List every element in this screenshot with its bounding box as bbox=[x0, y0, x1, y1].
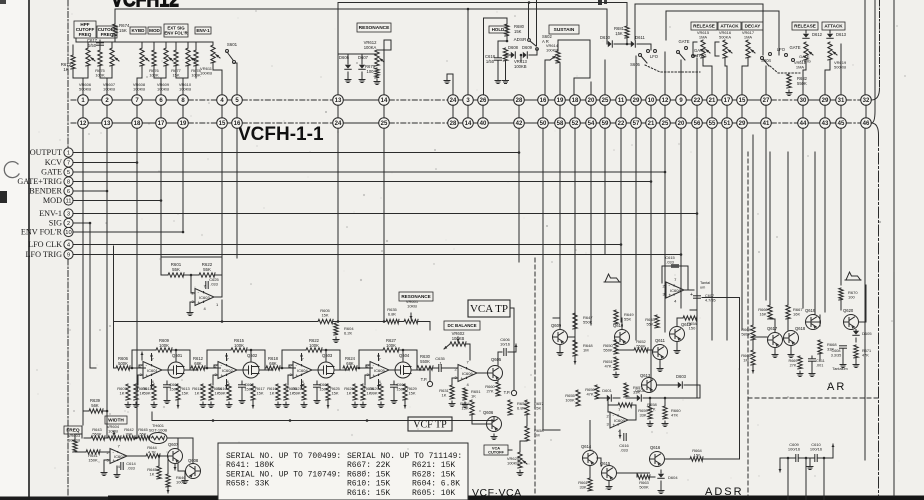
resistor R680 15K bbox=[505, 24, 509, 36]
wire KCV net bbox=[73, 162, 137, 164]
svg-text:ENV-1: ENV-1 bbox=[196, 28, 210, 33]
ground IC607 bbox=[101, 470, 107, 476]
svg-text:DECAY: DECAY bbox=[745, 24, 761, 29]
capacitor C610 100/16 bbox=[815, 455, 817, 462]
bus row2 node 58 bbox=[555, 118, 566, 129]
ground C618 pair bbox=[495, 78, 501, 84]
diode D608 bbox=[505, 54, 511, 56]
svg-text:Q605: Q605 bbox=[491, 357, 502, 362]
resistor R645b 1K bbox=[157, 466, 161, 479]
ground R679 bbox=[374, 79, 380, 85]
op-amp IC608 adsr bbox=[663, 277, 685, 303]
resistor R656 6.8K bbox=[508, 400, 512, 415]
wire bus column x=742 bbox=[741, 128, 743, 330]
svg-text:R610: 15K: R610: 15K bbox=[347, 480, 390, 489]
ground Q608 emitter bbox=[182, 478, 188, 484]
svg-text:S605: S605 bbox=[630, 62, 640, 67]
svg-text:11: 11 bbox=[618, 98, 625, 104]
svg-text:SERIAL NO. UP TO 710749:: SERIAL NO. UP TO 710749: bbox=[226, 470, 341, 479]
op-amp IC607 freq bbox=[107, 444, 128, 469]
transistor Q616 bbox=[650, 452, 665, 467]
box ENV-1 bbox=[195, 27, 211, 34]
svg-text:25: 25 bbox=[662, 121, 669, 127]
svg-text:R606500K: R606500K bbox=[118, 356, 129, 366]
resistor R609 stage 1 feedback bbox=[131, 350, 133, 368]
resistor R645 55K bbox=[138, 436, 150, 440]
op-amp IC609 bbox=[607, 407, 629, 433]
bus row2 node 50 bbox=[538, 118, 549, 129]
svg-text:D610: D610 bbox=[600, 35, 611, 40]
svg-text:D606: D606 bbox=[339, 55, 350, 60]
svg-text:24: 24 bbox=[450, 98, 457, 104]
wire bus column x=161 bbox=[160, 128, 162, 275]
svg-text:VR620100KB: VR620100KB bbox=[507, 456, 520, 466]
svg-text:MOD: MOD bbox=[43, 196, 62, 205]
svg-text:59: 59 bbox=[602, 121, 609, 127]
box KYBD bbox=[130, 27, 146, 34]
bus row1 node 19 bbox=[555, 95, 566, 106]
resistor R654 15K bbox=[470, 400, 474, 415]
wire bus column x=712 bbox=[711, 128, 713, 340]
VR606 500KB pot bbox=[86, 48, 95, 66]
svg-text:C6181/50: C6181/50 bbox=[485, 54, 496, 64]
svg-text:10: 10 bbox=[648, 98, 655, 104]
op-amp IC601 bbox=[140, 357, 163, 384]
svg-text:Q619: Q619 bbox=[805, 308, 816, 313]
svg-text:R622100K: R622100K bbox=[309, 338, 320, 348]
capacitor C601 stage 1 bbox=[166, 381, 168, 384]
resistor R670 100 bbox=[839, 288, 843, 300]
svg-text:IC606: IC606 bbox=[462, 371, 473, 376]
wire summing loop top bbox=[161, 256, 222, 258]
svg-text:VCA TP: VCA TP bbox=[470, 303, 508, 315]
resistor R646 100K bbox=[166, 474, 170, 487]
svg-text:R664580K: R664580K bbox=[741, 327, 751, 337]
pot VR612 100KA bbox=[375, 50, 384, 66]
capacitor C604 stage 4 bbox=[393, 381, 395, 384]
box ATTACK right bbox=[822, 22, 845, 30]
bus row1 node 6 bbox=[156, 95, 167, 106]
svg-text:R616: 15K: R616: 15K bbox=[347, 489, 390, 498]
svg-text:21: 21 bbox=[648, 121, 655, 127]
svg-text:57: 57 bbox=[633, 121, 640, 127]
wire SIG column bbox=[89, 223, 91, 368]
svg-text:GATE+TRIG: GATE+TRIG bbox=[17, 177, 62, 186]
svg-text:R615100K: R615100K bbox=[234, 338, 245, 348]
svg-text:12: 12 bbox=[80, 121, 87, 127]
svg-text:IC605: IC605 bbox=[374, 368, 385, 373]
svg-text:ATTACK: ATTACK bbox=[824, 24, 843, 29]
bus row2 node 22 bbox=[616, 118, 627, 129]
svg-text:15: 15 bbox=[739, 98, 746, 104]
svg-text:GATE: GATE bbox=[678, 39, 689, 44]
box VCF TP bbox=[408, 417, 452, 431]
test point VCA terminal bbox=[511, 390, 516, 395]
wire AR feed x=770 bbox=[769, 152, 771, 305]
svg-text:C60610/16: C60610/16 bbox=[500, 337, 511, 347]
svg-text:52: 52 bbox=[572, 121, 579, 127]
resistor R604 6.2K bbox=[333, 321, 386, 323]
bus row2 node 41 bbox=[761, 118, 772, 129]
resonance wires bbox=[338, 53, 377, 55]
resistor R606 stage 1 input bbox=[116, 366, 130, 370]
svg-text:D604: D604 bbox=[668, 475, 678, 480]
bus row1 node 29 bbox=[631, 95, 642, 106]
ground Q606 bbox=[491, 434, 497, 440]
transistor Q613 bbox=[642, 378, 657, 393]
resistor R625 stage 3 bbox=[326, 384, 330, 400]
bus row2 wire bbox=[71, 122, 78, 124]
bus row2 node 15 bbox=[217, 118, 228, 129]
box ATTACK left bbox=[718, 22, 741, 30]
resistor R663 500K bbox=[637, 475, 650, 479]
bus row1 node 18 bbox=[570, 95, 581, 106]
svg-text:9: 9 bbox=[67, 253, 70, 259]
transistor Q607 bbox=[168, 449, 183, 464]
svg-text:32: 32 bbox=[863, 98, 870, 104]
RAD pot wires to bus bbox=[703, 65, 712, 67]
svg-text:VR609100KB: VR609100KB bbox=[157, 82, 170, 92]
svg-text:D601: D601 bbox=[602, 388, 612, 393]
svg-text:R609100K: R609100K bbox=[159, 338, 170, 348]
box FREQ bbox=[64, 426, 82, 434]
bus row2 node 52 bbox=[570, 118, 581, 129]
resistor R653 55K bbox=[655, 315, 659, 328]
svg-text:Q611: Q611 bbox=[655, 338, 666, 343]
svg-text:29: 29 bbox=[633, 98, 640, 104]
diode D613 bbox=[829, 30, 831, 33]
resistor R651adsr 47K bbox=[614, 357, 618, 370]
svg-text:C6083.3/35: C6083.3/35 bbox=[831, 349, 842, 357]
box RESONANCE lower bbox=[399, 292, 433, 301]
svg-text:IC603: IC603 bbox=[199, 295, 210, 300]
bus row2 node 13 bbox=[102, 118, 113, 129]
svg-text:8: 8 bbox=[67, 180, 70, 186]
bus row2 node 59 bbox=[600, 118, 611, 129]
svg-text:25: 25 bbox=[602, 98, 609, 104]
svg-text:R630550K: R630550K bbox=[420, 354, 431, 364]
wire bus column x=83 bbox=[82, 128, 84, 411]
resistor R660 27K bbox=[496, 382, 500, 396]
wire bus column x=591 bbox=[590, 128, 592, 325]
svg-text:46: 46 bbox=[863, 121, 870, 127]
resistor R626 stage 4 bbox=[353, 384, 357, 400]
box SUSTAIN bbox=[549, 25, 579, 34]
wire ENV FOL'R net bbox=[73, 231, 183, 233]
svg-text:56: 56 bbox=[694, 121, 701, 127]
diode D605 bbox=[853, 331, 859, 336]
svg-text:HOLD: HOLD bbox=[492, 27, 504, 32]
bus row2 node 20 bbox=[676, 118, 687, 129]
svg-text:VR606500KB: VR606500KB bbox=[79, 82, 92, 92]
bus row1 node 25 bbox=[600, 95, 611, 106]
resistor R628 stage 4 bbox=[361, 384, 365, 400]
resistor R616 stage 2 bbox=[227, 384, 231, 400]
resistor R618 stage 3 input bbox=[266, 366, 280, 370]
wire right top verticals bbox=[864, 0, 866, 95]
svg-text:Q620: Q620 bbox=[843, 308, 854, 313]
resistor R664ar 580K bbox=[751, 325, 755, 340]
wire bus column x=543 bbox=[542, 128, 544, 322]
resistor R621 stage 3 bbox=[302, 384, 306, 400]
resistor R622 stage 3 feedback bbox=[281, 350, 283, 368]
svg-text:13: 13 bbox=[335, 98, 342, 104]
transistor Q605 bbox=[477, 372, 489, 374]
wire bus column x=825 bbox=[824, 128, 826, 312]
bus row2 node 57 bbox=[631, 118, 642, 129]
svg-text:D605: D605 bbox=[862, 331, 872, 336]
svg-text:VR612100KA: VR612100KA bbox=[364, 40, 377, 50]
VR610 100KB pot bbox=[186, 48, 195, 66]
resistor R601 55K bbox=[161, 274, 168, 276]
ground Q615 bbox=[606, 484, 612, 490]
resistor R675 100K bbox=[98, 50, 102, 66]
svg-text:22: 22 bbox=[618, 121, 625, 127]
resistor R664adsr 150 bbox=[690, 457, 703, 461]
svg-text:ENV FOL'R: ENV FOL'R bbox=[164, 31, 188, 36]
wire AR feed x=815 bbox=[814, 152, 816, 315]
bus row1 wire bbox=[71, 99, 78, 101]
bus row1 node 30 bbox=[798, 95, 809, 106]
svg-text:IC602: IC602 bbox=[222, 368, 233, 373]
diode D611 bbox=[631, 41, 636, 47]
resistor R666 16K bbox=[768, 305, 772, 319]
pot VR619 500KB bbox=[828, 42, 837, 60]
bus row1 node 12 bbox=[660, 95, 671, 106]
wire GATE net bbox=[73, 171, 665, 173]
ground R671 bbox=[853, 362, 859, 368]
box EXT SIG ENV FOL'R bbox=[164, 24, 188, 37]
svg-text:CUTOFF: CUTOFF bbox=[488, 450, 504, 455]
svg-text:13: 13 bbox=[104, 121, 111, 127]
fet Q602 bbox=[237, 369, 243, 371]
svg-text:+: + bbox=[198, 300, 201, 305]
capacitor C602 stage 2 bbox=[241, 381, 243, 384]
box MOD bbox=[148, 27, 161, 34]
op-amp IC604 bbox=[290, 357, 313, 384]
sustain section wires bbox=[558, 39, 590, 41]
bus row1 node 2 bbox=[102, 95, 113, 106]
resistor R648 1M bbox=[573, 340, 577, 356]
bus row1 node 1 bbox=[78, 95, 89, 106]
transistor Q612 bbox=[670, 327, 685, 342]
svg-text:IC604: IC604 bbox=[297, 368, 308, 373]
svg-text:BENDER: BENDER bbox=[29, 186, 62, 195]
svg-text:S604: S604 bbox=[761, 58, 771, 63]
switch S601 bbox=[227, 52, 233, 60]
bus row1 node 5 bbox=[232, 95, 243, 106]
wire bus column x=841 bbox=[840, 128, 842, 285]
svg-text:SUSTAIN: SUSTAIN bbox=[554, 27, 575, 33]
svg-text:55: 55 bbox=[709, 121, 716, 127]
bus row1 node 27 bbox=[761, 95, 772, 106]
fet Q601 bbox=[162, 369, 168, 371]
resistor R652 550K bbox=[634, 348, 648, 352]
svg-text:19: 19 bbox=[180, 121, 187, 127]
wire top rail A bbox=[338, 2, 627, 4]
switch S604 bbox=[761, 57, 764, 60]
thermistor TH601 bbox=[149, 433, 167, 444]
bus row1 node 4 bbox=[217, 95, 228, 106]
svg-text:29: 29 bbox=[822, 98, 829, 104]
wire stage bottom rail bbox=[152, 420, 494, 422]
resistor R639 56K bbox=[89, 409, 103, 413]
wire bus column x=681 bbox=[680, 128, 682, 308]
svg-text:Q607: Q607 bbox=[168, 442, 179, 447]
wire bus column x=222 bbox=[221, 128, 223, 275]
svg-text:LFO: LFO bbox=[777, 47, 786, 52]
box DC BALANCE bbox=[444, 321, 480, 330]
resistor R631 1K bbox=[450, 385, 454, 399]
svg-text:54: 54 bbox=[588, 121, 595, 127]
diode D601 bbox=[607, 395, 612, 401]
resistor R619 stage 3 bbox=[276, 384, 280, 400]
bus row1 node 17 bbox=[722, 95, 733, 106]
bus row1 node 14 bbox=[379, 95, 390, 106]
wire ENV-1 net bbox=[73, 213, 697, 215]
svg-text:IC601: IC601 bbox=[147, 368, 158, 373]
svg-text:2: 2 bbox=[67, 221, 70, 227]
svg-text:45: 45 bbox=[838, 121, 845, 127]
pot VR611 100KB bbox=[211, 45, 220, 63]
bus row1 node 26 bbox=[478, 95, 489, 106]
svg-text:41: 41 bbox=[763, 121, 770, 127]
envelope sketch ADSR bbox=[604, 274, 620, 282]
svg-text:25: 25 bbox=[381, 121, 388, 127]
svg-text:+: + bbox=[296, 373, 299, 378]
svg-text:VCFH12: VCFH12 bbox=[111, 0, 179, 12]
svg-text:WIDTH: WIDTH bbox=[108, 418, 124, 424]
ground near node 24 bbox=[444, 78, 450, 84]
bus row2 node 55 bbox=[707, 118, 718, 129]
svg-text:Q606: Q606 bbox=[483, 410, 494, 415]
svg-text:R66927K: R66927K bbox=[788, 359, 797, 367]
resistor R665 1M bbox=[751, 350, 755, 365]
svg-text:R643550K: R643550K bbox=[92, 427, 102, 437]
capacitor C608 3.3/35 bbox=[840, 346, 847, 348]
bus row2 node 14 bbox=[463, 118, 474, 129]
wire power rail caps bbox=[780, 457, 796, 459]
svg-text:D607: D607 bbox=[358, 55, 369, 60]
svg-text:31: 31 bbox=[838, 98, 845, 104]
svg-text:Q613: Q613 bbox=[640, 373, 651, 378]
resistor R614 stage 2 bbox=[209, 384, 213, 400]
left dash-dot fold line bbox=[67, 0, 69, 147]
resistor R620 stage 3 bbox=[284, 384, 288, 400]
ground caps bbox=[807, 464, 813, 470]
wire node 3 drop bbox=[467, 9, 469, 95]
wire column x=113 stage feed bbox=[113, 246, 115, 368]
diode D609 bbox=[523, 52, 528, 58]
pot VR613 100KB bbox=[503, 48, 507, 61]
svg-text:SERIAL NO. UP TO 711149:: SERIAL NO. UP TO 711149: bbox=[347, 452, 462, 461]
svg-text:RELEASE: RELEASE bbox=[693, 24, 715, 29]
bus row2 node 46 bbox=[861, 118, 872, 129]
bus row2 node 54 bbox=[586, 118, 597, 129]
svg-text:D603: D603 bbox=[676, 374, 687, 379]
svg-text:R604: 6.8K: R604: 6.8K bbox=[412, 480, 460, 489]
svg-text:Q612: Q612 bbox=[681, 322, 692, 327]
transistor Q614 bbox=[583, 451, 598, 466]
wire bus column x=575 bbox=[574, 128, 576, 348]
wire top rail B bbox=[115, 8, 607, 10]
resistor R611 stage 1 bbox=[152, 384, 156, 400]
wires release attack right bbox=[805, 60, 807, 70]
resistor R657adsr 33K bbox=[624, 383, 628, 397]
svg-text:42: 42 bbox=[516, 121, 523, 127]
wire bus column x=605 bbox=[604, 128, 606, 254]
svg-text:RESONANCE: RESONANCE bbox=[359, 25, 390, 31]
svg-text:D613: D613 bbox=[836, 32, 847, 37]
svg-text:VCF·VCA: VCF·VCA bbox=[472, 487, 522, 499]
svg-text:IC608: IC608 bbox=[670, 288, 681, 293]
wire OUTPUT net bbox=[73, 152, 519, 154]
svg-text:D602: D602 bbox=[635, 388, 645, 393]
svg-text:43: 43 bbox=[822, 121, 829, 127]
envelope sketch AR bbox=[845, 272, 861, 280]
pot VR620 100KB vca cutoff bbox=[518, 452, 527, 468]
dashed separator x=535 bbox=[534, 258, 536, 496]
box RELEASE right bbox=[792, 22, 818, 30]
wire bus column x=727 bbox=[726, 128, 728, 340]
Q607 emitter arrow bbox=[174, 464, 177, 471]
svg-text:R650550K: R650550K bbox=[603, 343, 613, 353]
transistor Q618 bbox=[784, 331, 799, 346]
bus row2 node 18 bbox=[132, 118, 143, 129]
table serial numbers bbox=[218, 443, 468, 500]
svg-text:R658: 33K: R658: 33K bbox=[226, 480, 269, 489]
wire BENDER net bbox=[73, 190, 107, 192]
wire bus column x=107 bbox=[106, 128, 108, 438]
svg-text:29: 29 bbox=[739, 121, 746, 127]
ground R660adsr bbox=[662, 421, 668, 427]
resistor R641 150K bbox=[86, 450, 100, 454]
svg-text:22: 22 bbox=[694, 98, 701, 104]
wire bus column x=384 bbox=[383, 128, 385, 321]
svg-text:5: 5 bbox=[67, 170, 70, 176]
svg-text:18: 18 bbox=[134, 121, 141, 127]
svg-text:17: 17 bbox=[724, 98, 731, 104]
resistor R679 100 bbox=[375, 68, 379, 78]
box HPF CUTOFF FREQ bbox=[74, 21, 96, 38]
ground VR620 bbox=[517, 470, 523, 476]
fet Q603 bbox=[312, 369, 318, 371]
transistor Q611 bbox=[653, 345, 668, 360]
svg-text:FREQ: FREQ bbox=[101, 32, 114, 37]
transistor Q609 bbox=[553, 330, 568, 345]
svg-text:D611: D611 bbox=[635, 35, 645, 40]
resistor R677 15K bbox=[174, 50, 178, 66]
transistor Q606 bbox=[487, 417, 502, 432]
bus row2 node 42 bbox=[514, 118, 525, 129]
bus row2 right wrap wire bbox=[871, 123, 878, 135]
wire bus column x=519 bbox=[518, 128, 520, 262]
ground Q609 bbox=[557, 350, 563, 356]
svg-text:Q618: Q618 bbox=[795, 326, 806, 331]
top-left corner scan mark bbox=[0, 0, 6, 4]
svg-text:+: + bbox=[613, 423, 616, 428]
svg-text:T.P.: T.P. bbox=[421, 377, 428, 382]
svg-text:28: 28 bbox=[516, 98, 523, 104]
svg-text:R682550K: R682550K bbox=[797, 76, 808, 86]
ground Q612 bbox=[674, 348, 680, 354]
ground R604 bbox=[333, 337, 339, 343]
svg-text:DC BALANCE: DC BALANCE bbox=[447, 323, 476, 328]
svg-text:IC609: IC609 bbox=[614, 418, 625, 423]
svg-text:VR616500KA: VR616500KA bbox=[719, 30, 732, 40]
bus row2 node 29 bbox=[737, 118, 748, 129]
transistor Q608 bbox=[186, 464, 201, 479]
